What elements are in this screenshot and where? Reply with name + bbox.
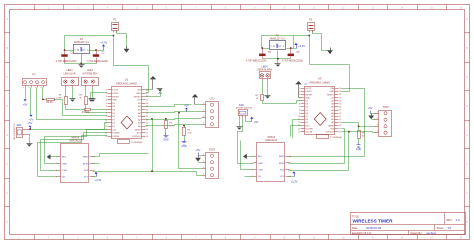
svg-text:CE: CE xyxy=(258,176,262,178)
svg-text:2: 2 xyxy=(252,163,253,165)
wire: NRF MOSI wrap to U3 xyxy=(289,129,345,164)
svg-text:5: 5 xyxy=(106,103,107,105)
svg-text:1/1: 1/1 xyxy=(448,226,453,230)
wire: SW1 to U1 D10 xyxy=(31,123,108,130)
ground (SW2) xyxy=(237,127,243,130)
svg-text:22: 22 xyxy=(146,116,148,118)
svg-text:SW1: SW1 xyxy=(17,125,23,127)
voltage regulator P6 AMS1117-3.3 (right) xyxy=(270,34,286,49)
svg-text:6: 6 xyxy=(290,169,291,171)
connector TOP1 (4-pin) xyxy=(202,149,219,179)
wire: U2 IRQ stub xyxy=(51,156,58,158)
ground (P3 input) xyxy=(327,48,333,55)
svg-text:3: 3 xyxy=(299,94,300,96)
svg-text:9: 9 xyxy=(299,113,300,115)
svg-text:+5V: +5V xyxy=(304,83,308,85)
svg-text:Sheet:: Sheet: xyxy=(437,226,445,230)
RF module U2 NRF24L01 xyxy=(56,137,95,183)
junction (TOP1 branch) xyxy=(151,118,153,120)
svg-text:RESET: RESET xyxy=(306,94,314,96)
resistor R6 xyxy=(46,99,54,105)
net flag power (LCD pin1) xyxy=(192,94,198,105)
svg-text:11: 11 xyxy=(105,123,107,125)
svg-text:14: 14 xyxy=(105,133,107,135)
RF module U4 NRF24L01 (right) xyxy=(252,136,291,181)
voltage regulator P4 AMS1117-3.3 xyxy=(74,38,90,54)
svg-text:5: 5 xyxy=(290,176,291,178)
wire: SW1 pin2 to ground xyxy=(29,135,31,144)
svg-text:7: 7 xyxy=(290,163,291,165)
svg-text:23: 23 xyxy=(339,110,341,112)
svg-text:MOSI: MOSI xyxy=(279,163,285,165)
svg-text:1: 1 xyxy=(106,90,107,92)
svg-text:SYSTEM RDY: SYSTEM RDY xyxy=(82,73,98,76)
wire: branch from LCD pin3 down to SCK bus xyxy=(152,119,154,172)
svg-text:R6 4K: R6 4K xyxy=(46,102,53,104)
svg-text:27: 27 xyxy=(339,97,341,99)
junction (R3 tap) xyxy=(165,118,167,120)
svg-text:CSN: CSN xyxy=(258,169,263,171)
svg-text:GND: GND xyxy=(329,91,334,93)
switch SW2 SETUP SWITCH xyxy=(236,105,253,119)
svg-text:+3.3V: +3.3V xyxy=(95,179,102,182)
net flag +3.3V (left regulator output) xyxy=(100,41,107,51)
svg-text:D13/SCK: D13/SCK xyxy=(132,136,141,138)
svg-text:10: 10 xyxy=(298,116,300,118)
svg-text:LINK ALAR: LINK ALAR xyxy=(63,73,75,76)
svg-text:7: 7 xyxy=(106,109,107,111)
svg-text:1.0: 1.0 xyxy=(456,218,461,222)
svg-text:15: 15 xyxy=(298,131,300,133)
svg-text:17: 17 xyxy=(146,133,148,135)
connector P1 (2-pin power input) xyxy=(112,19,119,33)
svg-text:14: 14 xyxy=(298,128,300,130)
net flag +5V (TOP1 pin1) xyxy=(196,148,201,155)
wire: U2 MOSI stub xyxy=(93,163,100,165)
svg-text:8: 8 xyxy=(290,156,291,158)
ground flag (R4) xyxy=(181,140,187,148)
svg-text:2018-05-06: 2018-05-06 xyxy=(366,226,382,230)
svg-text:+5V: +5V xyxy=(368,106,373,110)
svg-text:8: 8 xyxy=(94,157,95,159)
wire: U1 pin30 stub xyxy=(146,89,153,91)
wire: P7 pin1 to +5V flag xyxy=(25,88,27,99)
svg-text:17: 17 xyxy=(339,128,341,130)
net flag supply arrow (U1 pin30) xyxy=(150,76,163,95)
svg-text:USER ALARM: USER ALARM xyxy=(257,69,272,72)
wire: TOP1 pin1 xyxy=(199,155,202,157)
svg-text:SW2: SW2 xyxy=(239,105,245,107)
ground (SW1) xyxy=(27,144,33,147)
svg-text:+5V: +5V xyxy=(137,100,141,102)
wire: raw supply down-right to U1 VIN xyxy=(114,36,149,93)
connector P7 (4-pin header) xyxy=(22,73,46,90)
connector P3 (2-pin power input) xyxy=(308,19,315,33)
svg-text:GND: GND xyxy=(356,148,362,151)
ground flag (R3) xyxy=(163,133,169,142)
svg-text:24: 24 xyxy=(146,109,148,111)
svg-text:G: G xyxy=(466,193,468,195)
wire: raw supply to U3 VIN (right) xyxy=(310,36,350,92)
wire: NRF SCK wrap to U3 xyxy=(289,132,349,171)
led LED4 USER ALARM xyxy=(257,65,272,80)
svg-text:AMS1117-3.3: AMS1117-3.3 xyxy=(74,41,90,44)
wire: U1 to LCD pin2 (+5V) xyxy=(146,112,202,113)
svg-text:GND: GND xyxy=(112,100,117,102)
connector LCD (4-pin) xyxy=(202,98,219,128)
svg-text:ARDUINO_NANO: ARDUINO_NANO xyxy=(116,81,137,85)
svg-text:+5V: +5V xyxy=(330,97,334,99)
svg-text:AREF: AREF xyxy=(135,128,141,131)
wire: R2 to U1 D6 (via R1) xyxy=(66,105,85,110)
wire: SCK bus to TOP2 pin4 xyxy=(349,132,376,133)
wire: R6 to U1 D8 xyxy=(54,100,108,116)
wire: regulator pin1 to ground xyxy=(81,54,83,65)
wire: SW2 pin3 to +5V xyxy=(246,119,252,122)
capacitor C1 4.7UF xyxy=(56,51,77,64)
wire: U2 MISO up-right xyxy=(93,154,149,157)
svg-text:GND: GND xyxy=(136,93,141,95)
svg-text:3: 3 xyxy=(106,96,107,98)
svg-text:VCC: VCC xyxy=(280,176,285,178)
wire: P1 feed to regulator input xyxy=(65,36,114,51)
svg-text:CE: CE xyxy=(62,177,66,179)
wire: U1 D12 to U2 CSN xyxy=(41,133,108,171)
svg-text:+3.3V: +3.3V xyxy=(100,41,107,45)
svg-text:24: 24 xyxy=(339,107,341,109)
wire: regulator output to +3.3V xyxy=(89,50,104,52)
svg-text:30: 30 xyxy=(339,88,341,90)
svg-text:MISO: MISO xyxy=(83,157,89,159)
ground (U1 left) xyxy=(89,99,95,102)
wire: U1 D13 to U2 CSN (staircase) xyxy=(45,130,108,164)
wire: SW2 pin2 to U4 GND pin xyxy=(238,119,254,164)
svg-text:27: 27 xyxy=(146,100,148,102)
wire: NRF SCK bus to TOP1 pin4 xyxy=(93,172,202,176)
svg-text:TOP2: TOP2 xyxy=(382,106,389,109)
svg-text:VIN: VIN xyxy=(330,88,334,90)
wire: U1 to LCD pin3 xyxy=(146,119,202,120)
svg-text:GND: GND xyxy=(181,145,187,148)
switch SW1 SETUP SWITCH xyxy=(14,123,31,140)
wire: U1 D11 to U2 CE xyxy=(38,136,108,177)
junction (R9 tap) xyxy=(358,125,360,127)
node: P1 junction xyxy=(113,35,115,37)
wire: U4 IRQ stub xyxy=(247,156,254,158)
svg-text:D0/RX: D0/RX xyxy=(112,93,119,95)
svg-text:GND: GND xyxy=(306,97,311,99)
svg-text:U1: U1 xyxy=(125,78,129,82)
svg-text:4.7K: 4.7K xyxy=(187,132,192,134)
svg-text:GND: GND xyxy=(62,163,67,165)
wire: U3 to TOP2 pin3 xyxy=(342,123,376,127)
net flag +5V (TOP2 pin1) xyxy=(368,106,373,114)
wire: P7 pin4 to R6 xyxy=(43,88,47,100)
svg-text:8: 8 xyxy=(106,113,107,115)
svg-text:4.7UF-MED(C1206): 4.7UF-MED(C1206) xyxy=(282,60,303,62)
svg-text:+5V: +5V xyxy=(28,121,33,125)
op-amp U1 ARDUINO NANO (MCU module) xyxy=(105,78,148,145)
svg-text:TO SEND(A): TO SEND(A) xyxy=(131,141,143,144)
svg-text:MOSI: MOSI xyxy=(83,163,89,165)
svg-text:25: 25 xyxy=(339,104,341,106)
svg-text:Drawn By:: Drawn By: xyxy=(411,232,423,235)
net flag +5V (SW2) xyxy=(250,117,258,125)
svg-text:EasyEDA V5.4.11: EasyEDA V5.4.11 xyxy=(352,232,372,235)
wire: LED3 cathode to ground xyxy=(72,88,74,99)
wire: P3 pin2 to ground xyxy=(313,31,331,51)
svg-text:NRF24L01: NRF24L01 xyxy=(265,139,277,142)
wire: U3 right wrap to NRF MISO xyxy=(289,89,365,157)
svg-text:1: 1 xyxy=(56,157,57,159)
svg-text:2: 2 xyxy=(299,91,300,93)
ground (LED3) xyxy=(70,99,76,102)
svg-text:RESET: RESET xyxy=(134,96,142,98)
svg-text:+5V: +5V xyxy=(184,103,189,107)
wire: U1 pin28 to ground xyxy=(146,92,161,97)
wire: R7 to U3 xyxy=(263,101,301,104)
svg-text:U3: U3 xyxy=(318,77,322,81)
ground flag (R9) xyxy=(356,143,362,152)
svg-text:REV:: REV: xyxy=(447,218,453,222)
net flag +5V (P7 pin1) xyxy=(23,99,28,106)
junction node at C5 xyxy=(261,47,263,49)
svg-text:D11/MO: D11/MO xyxy=(112,133,120,135)
svg-text:+5V: +5V xyxy=(29,118,34,122)
resistor R9 xyxy=(358,127,366,143)
net flag +3.3V (U2 VCC) xyxy=(93,172,102,183)
svg-text:tamberg: tamberg xyxy=(427,231,437,235)
wire: U3 left pin corner stub A xyxy=(293,120,301,139)
ground (U2 IRQ) xyxy=(47,154,51,159)
svg-text:D0/RX: D0/RX xyxy=(306,91,313,93)
svg-text:20: 20 xyxy=(146,123,148,125)
ground (TOP1 pin2) xyxy=(195,156,201,162)
svg-text:TOP1: TOP1 xyxy=(209,149,216,152)
svg-text:26: 26 xyxy=(146,103,148,105)
svg-text:D12/MI: D12/MI xyxy=(306,132,313,134)
svg-text:5: 5 xyxy=(299,100,300,102)
ground (LED4) xyxy=(265,96,271,99)
wire: capacitor ground bus xyxy=(65,63,97,65)
svg-text:26: 26 xyxy=(339,100,341,102)
resistor R3 xyxy=(165,119,175,133)
svg-text:20: 20 xyxy=(339,119,341,121)
svg-text:4: 4 xyxy=(106,100,107,102)
svg-text:WIRELESS TIMER: WIRELESS TIMER xyxy=(353,219,394,225)
svg-text:4.7UF-MED(C1206): 4.7UF-MED(C1206) xyxy=(56,61,77,63)
svg-text:30: 30 xyxy=(146,90,148,92)
svg-text:D1/TX: D1/TX xyxy=(306,88,313,90)
svg-text:16: 16 xyxy=(339,131,341,133)
resistor R1 xyxy=(82,109,91,115)
ground (LED1) xyxy=(90,99,96,102)
svg-text:TO SEND(A): TO SEND(A) xyxy=(330,136,342,139)
svg-text:6: 6 xyxy=(94,170,95,172)
wire: U1 to LCD pin1 xyxy=(146,105,192,107)
svg-text:MISO: MISO xyxy=(279,156,285,158)
svg-text:GND: GND xyxy=(163,138,169,141)
svg-text:D1/TX: D1/TX xyxy=(112,90,119,92)
wire: TOP2 pin1 xyxy=(371,113,376,115)
resistor R4 xyxy=(183,126,193,140)
capacitor C5 4.7UF xyxy=(246,49,272,63)
capacitor C6 4.7UF xyxy=(282,49,303,63)
svg-text:VIN: VIN xyxy=(137,90,141,92)
svg-text:1: 1 xyxy=(299,88,300,90)
ground (right regulator) xyxy=(275,64,281,67)
junction (SCK to TOP2) xyxy=(348,131,350,133)
wire: P3 feed to regulator input (right) xyxy=(262,36,310,49)
svg-text:29: 29 xyxy=(146,93,148,95)
svg-text:+3.3V: +3.3V xyxy=(291,181,298,184)
svg-text:15: 15 xyxy=(105,136,107,138)
wire: TOP1 pin2 xyxy=(199,162,202,164)
svg-text:VCC: VCC xyxy=(84,177,89,179)
svg-text:AMS1117-3.3: AMS1117-3.3 xyxy=(270,38,286,41)
wire: regulator output to +3.3V (right) xyxy=(287,48,297,50)
wire: LED3 anode to R2 xyxy=(65,88,67,97)
svg-text:21: 21 xyxy=(339,116,341,118)
svg-text:+3.3V: +3.3V xyxy=(298,44,305,48)
svg-text:9: 9 xyxy=(106,116,107,118)
svg-text:12: 12 xyxy=(298,122,300,124)
svg-text:+5V: +5V xyxy=(158,93,163,95)
svg-text:SCK: SCK xyxy=(280,169,285,171)
svg-text:8: 8 xyxy=(299,110,300,112)
net flag +5V (LCD) xyxy=(184,103,189,111)
net flag +3.3V (U4 VCC) xyxy=(289,171,298,184)
net flag +5V (P7 pin2) xyxy=(29,115,34,122)
wire: regulator pin1 ground (right) xyxy=(277,51,279,64)
svg-text:23: 23 xyxy=(146,113,148,115)
title block xyxy=(351,213,466,236)
wire: TOP2 pin2 xyxy=(372,119,376,121)
junction node at C6 xyxy=(290,47,292,49)
led LED1 SYSTEM/READY xyxy=(82,69,99,87)
net flag +5V (SW1) xyxy=(28,121,33,130)
svg-text:4: 4 xyxy=(252,176,253,178)
ground (U1 right) xyxy=(157,89,163,92)
svg-text:10: 10 xyxy=(105,119,107,121)
svg-text:4.7K: 4.7K xyxy=(169,126,174,128)
svg-text:6: 6 xyxy=(299,104,300,106)
svg-text:RESET: RESET xyxy=(327,94,335,96)
svg-text:12: 12 xyxy=(105,126,107,128)
svg-text:4.7UF-MED(C1206): 4.7UF-MED(C1206) xyxy=(87,61,108,63)
wire: U4 CE stub xyxy=(245,176,254,178)
svg-text:CSN: CSN xyxy=(62,170,67,172)
svg-text:AREF: AREF xyxy=(328,124,334,127)
ground (TOP2 pin2) xyxy=(368,114,374,120)
wire: P1 pin2 to ground xyxy=(117,31,127,49)
svg-text:+5V: +5V xyxy=(196,148,201,152)
wire: P7 pin2 to +5V flag xyxy=(30,88,32,115)
svg-text:D13/SCK: D13/SCK xyxy=(325,132,334,134)
svg-text:SETUP SWITCH: SETUP SWITCH xyxy=(14,123,16,140)
wire: R1 to U1 D6 xyxy=(91,109,108,111)
svg-text:18: 18 xyxy=(146,129,148,131)
svg-text:RESET: RESET xyxy=(112,96,120,98)
ground (U4 IRQ) xyxy=(243,154,247,159)
svg-text:LCD: LCD xyxy=(210,98,215,101)
wire: TOP1 pin3 from W2 xyxy=(179,113,202,169)
capacitor C2 4.7UF xyxy=(87,51,108,64)
resistor R2 xyxy=(56,95,67,105)
net flag +3.3V (right regulator) xyxy=(294,43,305,49)
svg-text:18: 18 xyxy=(339,125,341,127)
svg-text:28: 28 xyxy=(339,94,341,96)
wire: cap ground bus (right) xyxy=(263,58,291,60)
wire: P7 pin3 to U1 D9 xyxy=(37,88,108,120)
svg-text:G: G xyxy=(6,193,8,195)
wire: LED4 anode to R7 xyxy=(262,81,264,95)
svg-text:P7: P7 xyxy=(32,73,36,77)
svg-text:ARDUINO_NANO: ARDUINO_NANO xyxy=(309,80,330,84)
svg-text:Date:: Date: xyxy=(352,226,358,230)
svg-text:22: 22 xyxy=(339,113,341,115)
wire: R5 to U1 D5 xyxy=(86,105,108,113)
op-amp U3 ARDUINO NANO (right MCU) xyxy=(298,77,342,140)
svg-text:2: 2 xyxy=(106,93,107,95)
node: P3 junction xyxy=(308,35,310,37)
wire: U1 GND pin to ground xyxy=(91,93,108,99)
svg-text:4.7UF-MED(C1206): 4.7UF-MED(C1206) xyxy=(246,60,267,62)
svg-text:19: 19 xyxy=(146,126,148,128)
svg-text:IRQ: IRQ xyxy=(258,156,262,158)
svg-text:+5V: +5V xyxy=(254,121,259,124)
junction node at C2 xyxy=(95,49,97,51)
net flag supply arrow (U3 left) xyxy=(295,81,301,98)
svg-text:6: 6 xyxy=(106,106,107,108)
svg-text:IRQ: IRQ xyxy=(62,157,66,159)
svg-text:SCK: SCK xyxy=(84,170,89,172)
resistor R7 xyxy=(256,95,264,101)
svg-text:D12/MI: D12/MI xyxy=(112,136,119,138)
wire: U3 left pin corner stub B xyxy=(291,126,301,137)
wire: LED1 anode to R5 xyxy=(85,88,87,97)
wire: U1 to LCD pin4 xyxy=(146,125,202,126)
wire: flag to U3 pin xyxy=(299,97,301,99)
wire: U4 CSN stub xyxy=(241,141,254,170)
svg-text:7: 7 xyxy=(299,107,300,109)
resistor R5 xyxy=(79,95,87,105)
wire: SW2 pin1 to ground xyxy=(239,119,241,127)
svg-text:TITLE:: TITLE: xyxy=(352,215,360,218)
svg-text:100R: 100R xyxy=(56,97,62,99)
led LED3 LINK/ALARM xyxy=(62,69,79,87)
svg-text:D11/MO: D11/MO xyxy=(306,128,314,130)
ground (P1 input) xyxy=(124,47,130,53)
junction node at C1 xyxy=(64,49,66,51)
connector TOP2 (4-pin) xyxy=(375,106,392,136)
svg-text:NRF24L01: NRF24L01 xyxy=(69,140,81,143)
svg-text:16: 16 xyxy=(146,136,148,138)
wire: LED1 cathode to ground xyxy=(92,88,94,99)
junction (R4 tap) xyxy=(183,125,185,127)
wire: LED4 cathode to ground xyxy=(267,81,269,96)
wire: regulator loop right vertical xyxy=(293,36,295,49)
wire: flag to LCD pin1 xyxy=(195,104,202,106)
ground (left regulator) xyxy=(79,65,85,68)
svg-text:+5V: +5V xyxy=(23,102,28,106)
svg-text:19: 19 xyxy=(339,122,341,124)
svg-text:3: 3 xyxy=(56,170,57,172)
svg-text:29: 29 xyxy=(339,91,341,93)
svg-text:GND: GND xyxy=(258,163,263,165)
